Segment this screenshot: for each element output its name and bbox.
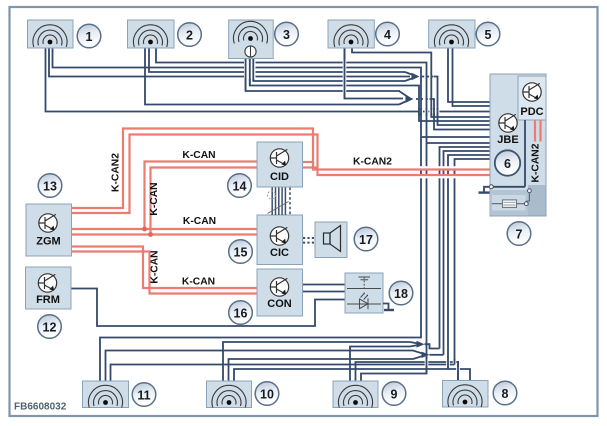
wire antenna1-c long vertical to bottom antenna 11 [53, 48, 422, 381]
wire antenna1-b to arrow A1 [49, 48, 410, 77]
fuse element in JBE [492, 203, 525, 205]
wire JBE tap at node x426.5 [427, 142, 491, 144]
number circle 17 [354, 227, 378, 251]
redraw crossing verticals over gaps [246, 48, 458, 381]
JBE lower connector area [491, 190, 546, 216]
number circle 18 [389, 281, 413, 305]
svg-text:7: 7 [516, 227, 523, 241]
svg-text:FB6608032: FB6608032 [14, 402, 67, 413]
arrow A2 converging lines [399, 91, 411, 105]
speaker 17 box [315, 222, 347, 258]
eraser gaps bottom crossings [425, 358, 429, 366]
svg-text:3: 3 [283, 28, 290, 42]
wire antenna2-b to arrow A1 [149, 48, 405, 72]
PDC control unit box [518, 76, 546, 120]
svg-text:K-CAN: K-CAN [182, 277, 215, 288]
bottom antenna 9 box [333, 381, 378, 408]
svg-text:CON: CON [267, 298, 292, 310]
wire bottom antenna10-b to arrow B2 [229, 359, 414, 381]
wire JBE to bottom arrow B2 vertical [444, 151, 491, 355]
svg-text:13: 13 [43, 179, 57, 193]
wire bottom antenna10-a to arrow B1 [223, 342, 410, 381]
antenna 3 box with amplifier [229, 20, 274, 59]
wire antenna2-c long vertical to bottom antenna 9 [156, 48, 427, 381]
svg-text:4: 4 [384, 28, 391, 42]
wire JBE sixth entry vertical [455, 159, 491, 365]
number circle 2 [178, 23, 202, 47]
number circle 1 [77, 24, 101, 48]
number circle 13 [38, 174, 62, 198]
svg-text:K-CAN2: K-CAN2 [111, 153, 122, 192]
arrow A2 head [406, 95, 414, 102]
wire FRM to unit18 [71, 289, 345, 327]
arrow B2 head [422, 352, 430, 358]
antenna 5 box [429, 20, 475, 48]
svg-text:K-CAN: K-CAN [183, 216, 216, 227]
svg-text:K-CAN: K-CAN [149, 182, 160, 215]
red K-CAN bus ZGM to CON line b [72, 252, 258, 294]
eraser gaps where jog verticals cross line L8 [419, 110, 423, 114]
JBE internal wire from PDC [491, 120, 525, 187]
antenna 1 box [28, 20, 74, 48]
wire antenna5-b to JBE [453, 48, 491, 106]
arrow A1 dotted continuation [422, 76, 433, 78]
number circle 11 [132, 383, 156, 407]
dotted audio link CIC to speaker [303, 238, 314, 243]
svg-text:FRM: FRM [36, 294, 60, 306]
svg-text:1: 1 [86, 30, 93, 44]
svg-text:5: 5 [485, 28, 492, 42]
red K-CAN2 stub into CID line a [303, 161, 314, 163]
wire bottom antenna9-a to arrow B1 [350, 347, 410, 382]
wire antenna4-right to JBE [352, 48, 490, 117]
svg-text:CID: CID [270, 171, 289, 183]
arrow B1 head [417, 341, 425, 348]
wire bottom antenna11-b to arrow B2 [106, 351, 414, 382]
svg-text:14: 14 [233, 179, 247, 193]
CON control unit box [257, 269, 303, 316]
svg-text:2: 2 [186, 28, 193, 42]
red K-CAN bus to CID line b [151, 168, 258, 235]
antenna 2 box [128, 20, 175, 48]
wire JBE to bottom antenna10-c vertical [448, 155, 490, 369]
wire JBE tap at node x421 [421, 136, 490, 138]
svg-text:PDC: PDC [520, 106, 543, 118]
svg-text:JBE: JBE [497, 134, 518, 146]
svg-text:12: 12 [43, 320, 57, 334]
JBE icon and label [499, 114, 517, 132]
svg-text:6: 6 [504, 157, 511, 171]
eraser gaps where box3 verticals cross top lines [244, 61, 256, 79]
arrow A1 head [412, 73, 420, 80]
wire antenna5-a to JBE [448, 48, 490, 102]
wire A2 jog down to JBE [430, 99, 491, 130]
wire bottom antenna11-c to antenna8-b [111, 365, 455, 382]
number circle 10 [255, 382, 279, 406]
number circle 8 [493, 381, 517, 405]
red K-CAN bus to CID line a [145, 162, 258, 230]
red K-CAN2 stub into CID line b [303, 166, 318, 168]
number circle 14 [228, 174, 252, 198]
number circle 9 [382, 382, 406, 406]
bottom antenna 11 box [83, 381, 129, 408]
svg-text:18: 18 [394, 287, 408, 301]
svg-text:K-CAN: K-CAN [182, 150, 215, 161]
red K-CAN bus ZGM to CIC line a [72, 228, 258, 230]
number circle 3 [275, 22, 299, 46]
wire antenna3-c to arrow A1 [253, 59, 405, 82]
JBE main box [490, 74, 546, 216]
wire bottom antenna10-c horizontal to antenna8-b [234, 369, 470, 381]
red K-CAN2 bus ZGM to CID and JBE line a [72, 129, 491, 209]
arrow A2 dotted continuation [416, 98, 429, 100]
FRM control unit box [26, 267, 72, 309]
eraser gaps where box4-left vertical crosses top lines [343, 61, 347, 93]
wire antenna3-b to JBE [250, 59, 490, 122]
unit 18 box (antenna / LED module) [345, 273, 383, 313]
svg-text:8: 8 [502, 387, 509, 401]
number circle 4 [376, 22, 400, 46]
svg-text:9: 9 [391, 387, 398, 401]
svg-text:17: 17 [359, 233, 373, 247]
eraser gaps where verticals cross red pair [420, 166, 456, 178]
number circle 7 [507, 222, 531, 246]
wire antenna1-a to JBE [46, 48, 491, 112]
number circle 16 [229, 301, 253, 325]
wire antenna2-a to arrow A2 [145, 48, 399, 105]
wire B2 link to vertical x443.5 [430, 354, 444, 356]
bottom antenna 10 box [207, 381, 252, 408]
arrow B1 converging lines [410, 342, 422, 347]
wire JBE to bottom arrow B1 vertical [440, 147, 491, 349]
number circle 5 [476, 22, 500, 46]
svg-text:16: 16 [234, 306, 248, 320]
red K-CAN2 bus ZGM to CID and JBE line b [72, 135, 491, 214]
amplifier circle of antenna 3 [245, 46, 256, 57]
svg-text:ZGM: ZGM [36, 236, 60, 248]
wire antenna3-a to arrow A2 [246, 59, 400, 92]
red K-CAN2 PDC pair [535, 120, 541, 142]
antenna 4 box [328, 20, 374, 48]
wire B1 jog to vertical x439.5 [425, 344, 440, 348]
number circle 12 [38, 315, 62, 339]
CID control unit box [257, 142, 303, 187]
svg-text:15: 15 [234, 245, 248, 259]
LVDS dashed lines CID to CIC [272, 188, 290, 216]
svg-text:10: 10 [260, 387, 274, 401]
wire CON to unit18 pin1 [303, 284, 346, 286]
wire A1 jog down to JBE [434, 77, 491, 126]
wire bottom antenna9-b to antenna8-a [356, 362, 459, 381]
number circle 6 [495, 150, 520, 175]
svg-text:K-CAN2: K-CAN2 [531, 143, 542, 182]
CIC control unit box [257, 215, 303, 265]
number circle 15 [229, 240, 253, 264]
wire antenna4-left to arrow A2 [345, 48, 404, 99]
wire CON to unit18 pin2 [303, 291, 346, 293]
ZGM control unit box [26, 204, 72, 256]
svg-text:11: 11 [137, 388, 150, 402]
svg-text:K-CAN2: K-CAN2 [353, 157, 392, 168]
unit 18 ground [383, 304, 389, 310]
red K-CAN bus ZGM to CON line a [72, 247, 258, 289]
svg-text:CIC: CIC [270, 247, 289, 259]
red junction dot a [142, 227, 147, 232]
red junction dot b [148, 232, 153, 237]
red K-CAN bus ZGM to CIC line b [72, 233, 258, 235]
arrow A1 converging lines [405, 72, 417, 81]
JBE ground symbol [484, 187, 490, 192]
JBE inner connector sub-panel [492, 195, 526, 211]
arrow B2 converging lines [413, 351, 427, 360]
bottom antenna 8 box [443, 381, 489, 408]
svg-text:K-CAN: K-CAN [150, 250, 161, 283]
